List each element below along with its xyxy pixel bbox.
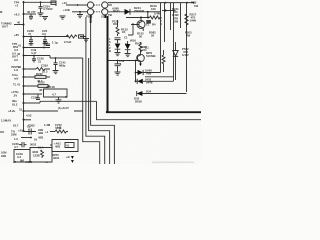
node pin 46 xyxy=(23,55,25,57)
wire stub under connector D xyxy=(104,15,106,18)
ground D120 xyxy=(115,53,121,56)
wire dashed link AB xyxy=(94,4,102,6)
node pin y111 xyxy=(23,110,25,112)
wire dashed link CD xyxy=(94,11,102,13)
capacitor C239 xyxy=(42,29,48,43)
component block under x148 xyxy=(146,20,151,24)
node pin y119 xyxy=(23,119,25,121)
wire tuning out xyxy=(14,24,24,26)
wire top distribution xyxy=(108,2,193,4)
label +12V vertical xyxy=(161,16,163,26)
diode D120 down xyxy=(115,44,121,50)
wire right bus x164.5 xyxy=(164,3,166,42)
resistor row y131 mid xyxy=(50,131,55,133)
diode D205 hollow down xyxy=(173,51,178,57)
capacitor C240 on row y131 xyxy=(27,129,36,135)
node junction x148 xyxy=(147,17,149,19)
connector P201 circle C xyxy=(87,9,93,15)
wire pin row y55 to staircase xyxy=(24,56,83,59)
wire pin row y2 xyxy=(24,1,56,3)
wire x163.5 stub xyxy=(163,50,165,72)
wire diode line continues xyxy=(147,11,161,13)
wire pin row y69 xyxy=(24,68,50,70)
wire long line y119.7 xyxy=(97,101,202,119)
ground C322 xyxy=(56,97,62,103)
ground C59 xyxy=(115,72,121,75)
ground for C234 xyxy=(38,13,44,16)
wire loop y76.5 xyxy=(145,76,174,78)
node pin 8.2 xyxy=(23,13,25,15)
node pin y103 xyxy=(23,102,25,104)
capacitor C59 xyxy=(115,59,125,71)
wire pin row y36 xyxy=(24,36,86,38)
wire vertical x135.5 xyxy=(135,61,137,83)
capacitor C236 xyxy=(27,10,36,20)
ground C141 xyxy=(53,71,59,74)
wire pin row y86 xyxy=(24,85,50,87)
ground under +12B line xyxy=(77,12,83,18)
ground D121 xyxy=(125,54,131,57)
wire into C xyxy=(72,11,87,13)
component box top xyxy=(51,1,56,6)
wire pin stub y119 xyxy=(24,119,31,121)
box bottom-left 1 xyxy=(14,150,30,163)
wire from B right xyxy=(108,4,112,6)
wire staircase W2 xyxy=(91,15,115,164)
wire Q201 emitter down net xyxy=(128,23,133,35)
wire pin row y103 to long feed xyxy=(24,101,97,103)
component inside box3 xyxy=(65,143,74,148)
node pin 41b xyxy=(23,76,25,78)
capacitor C247 xyxy=(19,142,27,147)
transistor Q202 xyxy=(127,50,144,66)
wire box3 to left xyxy=(50,144,52,146)
resistor in box2 xyxy=(41,150,44,158)
IC201 pin bus xyxy=(23,1,25,132)
diode D122 xyxy=(138,70,144,75)
node pin y131 xyxy=(23,130,25,132)
capacitor C234 xyxy=(39,2,53,13)
ground C238 xyxy=(29,44,34,45)
ground mid x62 xyxy=(60,16,66,19)
ground C239 xyxy=(43,44,48,45)
wire diode row y81 xyxy=(136,80,138,82)
box bottom-left 2 xyxy=(30,148,52,163)
resistor R233 xyxy=(36,68,46,71)
node C322 bottom right xyxy=(65,96,67,98)
box shield left edge xyxy=(107,16,109,112)
wire right bus x180.5 xyxy=(180,3,182,28)
capacitor C230 xyxy=(31,94,40,100)
capacitor C120 xyxy=(115,38,121,43)
resistor R217 vertical xyxy=(185,14,188,26)
wire staircase W4 xyxy=(86,17,105,164)
node pin 41 xyxy=(23,47,25,49)
wire pin row y14 xyxy=(24,13,36,15)
capacitor C121 stub xyxy=(147,12,149,18)
wire collector bus y17.5 xyxy=(126,17,150,19)
wire base branch Q201 xyxy=(117,20,119,27)
node pin 8 xyxy=(23,36,25,38)
node on top bus x165 xyxy=(165,2,167,4)
capacitor C49 xyxy=(31,47,45,55)
wire x175.5 xyxy=(175,42,177,80)
resistor R522 xyxy=(38,81,48,92)
wire into A xyxy=(66,4,87,6)
resistor R123 vertical xyxy=(116,27,119,36)
node on top bus x187 xyxy=(186,2,188,4)
diode D207 left pointing row y93.5 xyxy=(137,91,143,96)
node pin 42 xyxy=(23,85,25,87)
wire right bus x186.5 xyxy=(186,3,188,92)
wire left edge tick xyxy=(0,131,4,133)
node pin y94 xyxy=(23,93,25,95)
resistor vertical x163.5 xyxy=(162,55,165,66)
node pin 44 xyxy=(23,68,25,70)
node pin 40 xyxy=(23,24,25,26)
wire pin row y131 xyxy=(24,131,34,133)
box bottom-left 3 xyxy=(52,140,78,152)
diode D204 xyxy=(125,9,131,15)
wire from D with diode D204 xyxy=(108,11,147,13)
connector P201 circle A xyxy=(87,2,93,8)
box shield bottom edge xyxy=(106,111,201,113)
wire right bus x160.5 xyxy=(160,3,162,73)
diode D121 down xyxy=(125,44,131,50)
wire pin row y77 xyxy=(24,76,50,78)
transistor Q201 xyxy=(131,18,145,32)
capacitor C322 box xyxy=(44,85,68,97)
node junction x40 xyxy=(40,1,42,3)
capacitor C141 xyxy=(54,57,67,70)
component 45A xyxy=(46,44,50,46)
wire staircase W5 xyxy=(83,58,100,164)
resistor R107 xyxy=(66,35,77,38)
ground at x86 row y36 xyxy=(83,39,89,42)
wire diode row y72 xyxy=(136,72,141,74)
wire y60 row xyxy=(108,60,138,62)
wire pin row y111 +8.2V feed xyxy=(24,110,83,112)
wire pin row y94 xyxy=(24,93,42,95)
connector J201 circle D xyxy=(102,9,108,15)
wire junction bar top right xyxy=(162,10,176,12)
wire staircase W3 xyxy=(89,58,110,164)
capacitor C238 xyxy=(27,29,34,43)
capacitor C216 xyxy=(32,55,44,64)
resistor R5C3 vertical above Q202 xyxy=(140,42,142,45)
node TP4 xyxy=(23,1,25,3)
resistor R232 xyxy=(35,72,46,83)
node on +12 line xyxy=(77,4,79,6)
node on +12B line xyxy=(79,11,81,13)
wire stub under connector C xyxy=(90,15,92,23)
wire pin row y47 xyxy=(24,47,50,49)
wire marks y137 xyxy=(21,137,31,139)
resistor R124 zigzag xyxy=(150,16,161,19)
node collector junction xyxy=(140,17,142,19)
component box row y36 xyxy=(79,35,84,38)
wire right bus x173.5 xyxy=(173,3,175,81)
wire right bus x170.5 xyxy=(170,3,172,30)
faint smudge bottom right xyxy=(152,162,194,164)
connector J201 circle B xyxy=(102,2,108,8)
ground right of C236 xyxy=(42,17,48,20)
diode D123 xyxy=(137,79,143,84)
